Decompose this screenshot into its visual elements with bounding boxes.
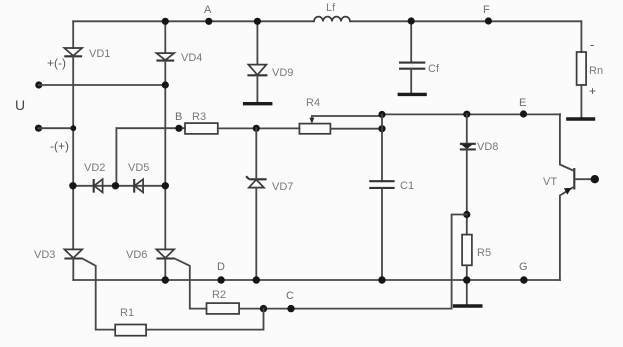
wire D row	[73, 279, 560, 281]
diode VD5	[128, 162, 149, 193]
svg-text:R4: R4	[306, 97, 320, 109]
zener VD7	[246, 176, 293, 193]
resistor R3	[185, 111, 218, 134]
wire R3 to R4	[218, 127, 300, 129]
resistor R5	[462, 235, 491, 266]
svg-text:VD6: VD6	[126, 249, 147, 261]
svg-text:R1: R1	[120, 307, 134, 319]
wire VD8 rail	[466, 114, 468, 143]
wire VT base lead	[574, 178, 594, 180]
wire Rn drop	[580, 21, 582, 52]
svg-text:+(-): +(-)	[47, 56, 66, 70]
svg-text:R3: R3	[192, 111, 206, 123]
terminal VT base	[591, 175, 599, 183]
junction diode row left	[69, 182, 76, 189]
wire left rail (VD1 branch)	[72, 21, 74, 48]
svg-text:R2: R2	[212, 289, 226, 301]
capacitor C1	[369, 180, 414, 192]
svg-text:VD5: VD5	[128, 162, 149, 174]
wire E row (wiper line)	[312, 114, 560, 116]
terminal minus wire	[35, 125, 76, 132]
svg-text:VD1: VD1	[89, 48, 110, 60]
svg-text:VD8: VD8	[477, 141, 498, 153]
junction top VD9	[254, 18, 261, 25]
wire diode row	[73, 185, 166, 187]
node F	[483, 4, 492, 25]
wire C1 to D row	[381, 188, 383, 280]
capacitor Cf	[399, 63, 440, 75]
junction top Cf	[408, 17, 415, 24]
svg-text:U: U	[15, 97, 25, 113]
wire VD4 to VD6	[164, 61, 166, 250]
wire VD9 rail	[256, 21, 258, 64]
junction VD7 D row	[253, 276, 260, 283]
svg-text:A: A	[204, 4, 212, 16]
svg-text:F: F	[483, 4, 490, 16]
junction R4 right	[378, 125, 385, 132]
ground under Rn	[566, 117, 595, 120]
junction diode row right	[162, 182, 169, 189]
diode VD9	[247, 65, 293, 79]
node A	[204, 4, 212, 25]
thyristor VD3	[34, 249, 82, 261]
svg-text:E: E	[519, 97, 526, 109]
wire Cf rail	[410, 21, 412, 62]
svg-text:VT: VT	[543, 176, 557, 188]
junction diode row mid	[112, 182, 119, 189]
junction VD6 D row	[162, 276, 169, 283]
potentiometer R4	[299, 97, 330, 134]
svg-text:Lf: Lf	[326, 2, 336, 14]
node B wire branch	[116, 111, 185, 186]
wire VD1 to diode row	[72, 56, 74, 249]
junction wiper C1	[378, 111, 385, 118]
node E	[519, 97, 527, 118]
diode VD4	[156, 52, 202, 64]
svg-text:VD4: VD4	[181, 52, 202, 64]
svg-text:+: +	[589, 84, 596, 98]
thyristor VD6	[126, 249, 174, 261]
terminal plus wire	[35, 81, 165, 88]
resistor R2	[207, 289, 240, 314]
svg-text:D: D	[217, 261, 225, 273]
wire R5 to ground	[466, 265, 468, 305]
junction top VD4	[162, 18, 169, 25]
svg-text:-(+): -(+)	[50, 139, 69, 153]
node D	[217, 261, 225, 284]
junction R1 C row	[260, 305, 267, 312]
wire Rn to ground	[580, 85, 582, 119]
wire VD8 to R5 top	[466, 150, 468, 235]
junction VD4 plus rail	[162, 81, 169, 88]
wire R4 right to C1 rail	[330, 128, 382, 130]
node G	[519, 261, 528, 284]
svg-text:VD3: VD3	[34, 249, 55, 261]
diode VD2	[84, 162, 105, 193]
wire Cf to ground	[410, 69, 412, 94]
node C	[286, 290, 295, 312]
junction R5 top	[463, 211, 470, 218]
ground under R5	[453, 304, 483, 307]
svg-text:Rn: Rn	[589, 65, 603, 77]
wire VD9 to ground	[256, 75, 258, 103]
wire VD3 gate to R1	[82, 259, 115, 330]
svg-text:C: C	[286, 290, 294, 302]
junction VD7 top	[253, 125, 260, 132]
junction wiper VD8	[463, 111, 470, 118]
svg-text:VD9: VD9	[272, 67, 293, 79]
inductor Lf	[314, 2, 350, 22]
wire top rail	[73, 20, 581, 22]
wire C row up branch	[452, 215, 467, 309]
wire VD7 rail	[255, 128, 257, 280]
wire C1 rail	[381, 115, 383, 182]
svg-text:G: G	[519, 261, 528, 273]
resistor R1	[115, 307, 146, 336]
resistor Rn	[577, 37, 603, 98]
wire R2 to C row	[239, 308, 452, 310]
wire R1 to C row junction	[146, 309, 263, 330]
wire VD3 cathode to D row	[72, 259, 74, 281]
junction R5 D row	[463, 276, 470, 283]
svg-text:B: B	[175, 111, 182, 123]
transistor VT	[543, 114, 574, 280]
wire VD6 gate to R2	[174, 259, 206, 309]
zener VD8	[460, 141, 499, 153]
diode VD1	[64, 48, 110, 60]
svg-text:VD7: VD7	[272, 181, 293, 193]
svg-text:C1: C1	[400, 180, 414, 192]
ground under VD9	[243, 102, 273, 105]
svg-text:R5: R5	[477, 247, 491, 259]
svg-text:Cf: Cf	[428, 63, 440, 75]
junction C1 D row	[378, 276, 385, 283]
wire VD4 rail	[164, 21, 166, 53]
svg-text:-: -	[590, 37, 594, 52]
wire VD6 cathode to D row	[164, 259, 166, 281]
svg-text:VD2: VD2	[84, 162, 105, 174]
ground under Cf	[398, 93, 427, 96]
